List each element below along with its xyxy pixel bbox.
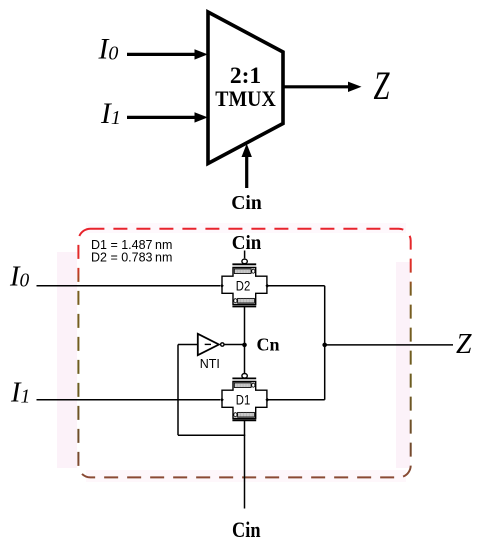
- wire Cin feedback horizontal: [178, 434, 245, 436]
- transistor D2 bottom nanotube: [234, 298, 255, 303]
- svg-text:D2 = 0.783 nm: D2 = 0.783 nm: [91, 250, 172, 264]
- transistor D1 bottom gate electrode: [232, 419, 256, 421]
- wire D1 bottom gate to Cin: [244, 420, 246, 508]
- svg-text:D2: D2: [236, 278, 251, 293]
- svg-text:D1: D1: [236, 392, 251, 407]
- wire D2 bottom gate to Cn: [244, 307, 246, 345]
- transistor D2 body: [222, 268, 267, 305]
- dashed boundary box: [78, 229, 410, 478]
- wire Cin select: [245, 156, 248, 188]
- pink halo bottom: [86, 470, 406, 482]
- mux symbol 2:1 TMUX: [208, 12, 283, 164]
- wire I1 input: [37, 399, 221, 401]
- arrowhead Z: [348, 82, 362, 92]
- wire I0 to mux: [127, 53, 196, 56]
- arrowhead I1: [195, 112, 208, 122]
- inverter NTI minus sign: [205, 343, 211, 345]
- svg-text:NTI: NTI: [200, 357, 220, 371]
- wire D1 drain to right rail: [268, 399, 325, 401]
- svg-text:TMUX: TMUX: [215, 86, 276, 111]
- transistor D2 p-type gate bubble: [242, 259, 247, 264]
- wire Cin stub to D2 top gate: [244, 251, 246, 259]
- transistor D2 source contact: [220, 284, 224, 288]
- pink halo left: [57, 252, 77, 468]
- node Cn junction dot: [242, 343, 247, 348]
- svg-text:Cin: Cin: [232, 517, 261, 542]
- svg-text:Cin: Cin: [231, 192, 262, 214]
- svg-text:2:1: 2:1: [230, 63, 261, 89]
- transistor D2 bottom gate electrode: [232, 306, 256, 308]
- transistor D1 p-type gate bubble: [242, 374, 247, 379]
- svg-text:Cn: Cn: [257, 335, 280, 355]
- wire right rail: [324, 286, 326, 400]
- transistor D1 top gate electrode: [232, 377, 256, 379]
- svg-text:Z: Z: [456, 329, 472, 360]
- inverter NTI triangle: [198, 334, 219, 355]
- transistor D2 drain contact: [265, 284, 269, 288]
- wire Z output: [325, 344, 453, 346]
- transistor D2 top gate electrode: [232, 263, 256, 265]
- transistor D2 top nanotube: [234, 269, 255, 274]
- wire mux output Z: [283, 85, 349, 88]
- transistor D1 top nanotube: [234, 383, 255, 388]
- transistor D1 bottom nanotube: [234, 412, 255, 417]
- wire D2 drain to right rail: [268, 285, 325, 287]
- wire Cn to D1 top gate: [244, 345, 246, 374]
- wire Cin feedback vertical: [177, 345, 179, 436]
- arrowhead I0: [195, 49, 208, 59]
- wire I0 input: [37, 285, 221, 287]
- pink halo top: [86, 223, 406, 233]
- transistor D1 drain contact: [265, 398, 269, 402]
- inverter NTI output bubble: [221, 343, 224, 346]
- wire I1 to mux: [127, 116, 196, 119]
- svg-text:Z: Z: [374, 63, 391, 108]
- transistor D1 source contact: [220, 398, 224, 402]
- svg-text:Cin: Cin: [232, 232, 262, 254]
- arrowhead Cin: [242, 144, 252, 157]
- node Z junction dot: [322, 343, 327, 348]
- transistor D1 body: [222, 382, 267, 419]
- wire NTI output to Cn: [224, 344, 244, 346]
- wire NTI input: [178, 344, 198, 346]
- pink halo right: [396, 262, 410, 468]
